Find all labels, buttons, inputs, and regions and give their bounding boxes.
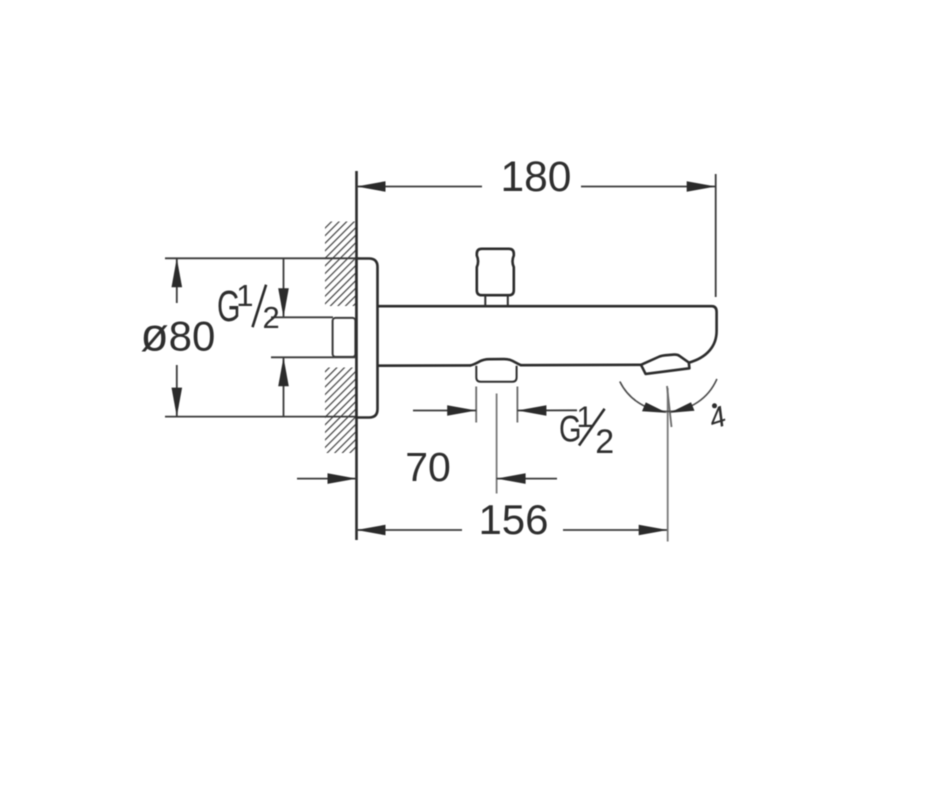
svg-text:2: 2 <box>595 423 614 461</box>
angle 4deg arc <box>620 379 717 412</box>
dimension G half top vertical upper <box>283 258 285 317</box>
dimension 180 arrow right <box>687 181 716 192</box>
hand shower outlet boss bump <box>470 359 521 365</box>
dimension 180 line right segment <box>581 186 716 188</box>
dimension G half top vertical lower <box>283 357 285 416</box>
svg-text:4: 4 <box>705 401 730 436</box>
dimension 156 arrow left-pointing <box>357 525 386 536</box>
angle 4deg degree dot <box>712 403 717 408</box>
dimension 70 line right <box>497 478 557 480</box>
svg-text:1: 1 <box>236 278 253 313</box>
svg-text:ø80: ø80 <box>141 309 216 361</box>
dimension G half bottom line right <box>517 409 577 411</box>
spout tip curve <box>689 306 717 362</box>
svg-text:156: 156 <box>478 496 548 543</box>
svg-text:70: 70 <box>405 444 451 490</box>
dimension 156 arrow right-pointing <box>639 525 668 536</box>
diverter knob neck left <box>484 295 486 306</box>
dimension diameter 80 extension bottom <box>165 416 360 418</box>
spout tube top line <box>378 305 713 308</box>
dimension G half top arrow down <box>278 288 289 317</box>
dimension 156 extension line right / angle vertical leg <box>667 388 669 542</box>
angle 4deg arrow left <box>642 402 667 413</box>
dimension G half bottom fraction slash <box>579 409 605 446</box>
inlet extension line upper <box>271 316 333 318</box>
wall hatching upper <box>325 222 357 307</box>
dimension 180 line left segment <box>357 186 483 188</box>
dimension 70 arrow right-pointing <box>328 473 357 484</box>
spout tube bottom line left segment <box>378 364 472 367</box>
inlet connector square <box>333 318 356 357</box>
outlet extension line left <box>475 387 477 423</box>
dimension 180 extension line right <box>715 174 717 297</box>
dimension diameter 80 arrow down <box>172 388 183 417</box>
svg-text:180: 180 <box>501 154 572 201</box>
wall face line <box>355 171 358 540</box>
dimension 70 line left <box>297 478 357 480</box>
wall hatching lower <box>325 368 357 454</box>
dimension 156 line right <box>563 529 668 531</box>
diverter knob body <box>477 249 514 295</box>
dimension diameter 80 line lower <box>176 365 178 417</box>
angle 4deg arrow right <box>670 402 695 413</box>
hand shower outlet block <box>476 366 516 382</box>
dimension diameter 80 arrow up <box>172 258 183 287</box>
dimension G half bottom arrow left-pointing <box>517 405 546 416</box>
dimension G half top arrow up <box>278 357 289 386</box>
inlet extension line lower <box>271 356 355 358</box>
flange escutcheon <box>357 259 378 418</box>
dimension 70 arrow left-pointing <box>497 473 526 484</box>
diverter knob neck right <box>507 295 509 306</box>
outlet extension line right <box>516 387 518 423</box>
svg-text:2: 2 <box>263 300 280 335</box>
spout tube bottom line right segment <box>520 363 641 366</box>
aerator outlet at tip <box>641 355 689 374</box>
outlet centerline <box>496 394 498 494</box>
dimension 180 arrow left <box>357 181 386 192</box>
angle 4deg tilted leg <box>667 386 672 427</box>
dimension diameter 80 line upper <box>176 258 178 303</box>
dimension diameter 80 extension top <box>165 257 360 259</box>
dimension 156 line left <box>357 529 463 531</box>
dimension G half top fraction slash <box>253 285 267 328</box>
dimension G half bottom line left <box>413 410 476 412</box>
dimension G half bottom arrow right-pointing <box>447 405 476 416</box>
